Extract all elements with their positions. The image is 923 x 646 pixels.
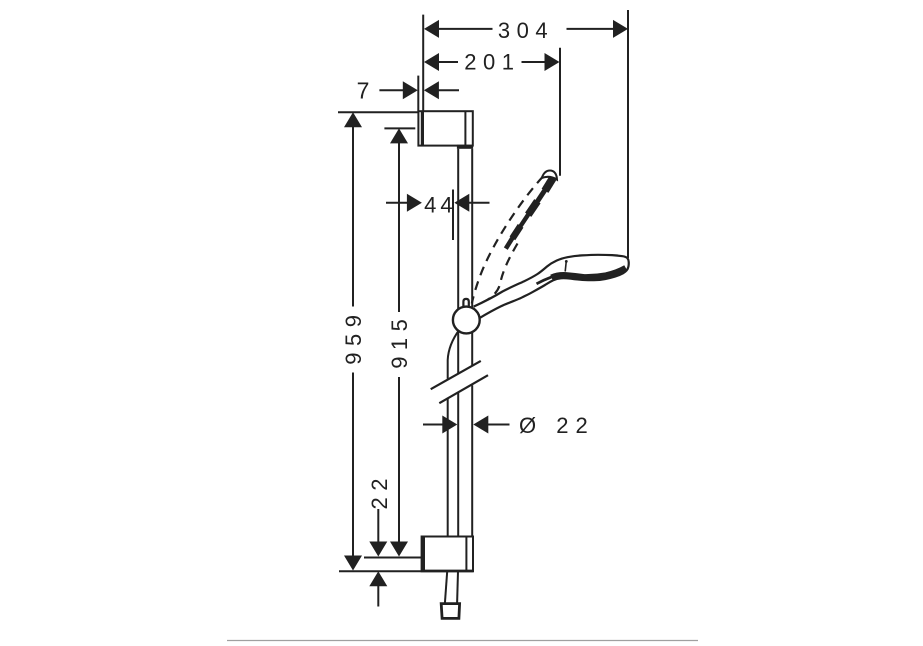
dim 7 bbox=[379, 89, 403, 91]
dim 44 bbox=[386, 202, 408, 204]
bottom wall bracket bbox=[422, 537, 473, 572]
extension line 304 (x=628) bbox=[627, 10, 629, 258]
dim 22 (vertical) bbox=[377, 509, 379, 544]
dim 201 bbox=[438, 61, 458, 63]
extension line bracket face (x=418.3) bbox=[417, 76, 419, 111]
dashed head tip cap bbox=[542, 170, 557, 179]
svg-text:304: 304 bbox=[498, 18, 554, 43]
extension line 44 (x=453) bbox=[452, 190, 454, 241]
solid handshower outline bbox=[474, 255, 629, 319]
extension line 915 top (y=128.4) bbox=[384, 127, 415, 129]
dim 915 bbox=[390, 128, 408, 143]
top wall bracket bbox=[418, 111, 472, 145]
svg-text:7: 7 bbox=[357, 78, 370, 104]
slider body bbox=[453, 307, 480, 334]
hose below bottom bracket bbox=[445, 571, 447, 603]
head/handle seam bbox=[565, 262, 566, 272]
spray face band on solid head bbox=[552, 268, 626, 278]
extension line top of bracket (y=112.2) bbox=[338, 111, 418, 113]
rail (Ø22 bar) left edge bbox=[457, 149, 459, 374]
slider knob bbox=[463, 299, 468, 308]
svg-text:915: 915 bbox=[387, 313, 412, 369]
labels bbox=[341, 18, 595, 509]
svg-text:Ø 22: Ø 22 bbox=[519, 413, 595, 438]
hose connector at bottom bbox=[441, 604, 459, 619]
dashed handshower upper position: right edge bbox=[483, 244, 518, 303]
svg-text:22: 22 bbox=[367, 472, 392, 509]
svg-text:44: 44 bbox=[424, 193, 456, 218]
dashed head spray face (jagged) bbox=[506, 178, 553, 248]
extension line wall face (x=423.2) bbox=[422, 15, 424, 111]
hose from slider to bottom bracket bbox=[448, 330, 460, 379]
footer rule bbox=[227, 640, 698, 642]
rail right edge bbox=[471, 149, 473, 367]
extension line 201 (x=560) bbox=[559, 48, 561, 176]
break symbol (bar shortened) bbox=[431, 361, 481, 389]
dim Ø22 bbox=[423, 424, 444, 426]
svg-text:201: 201 bbox=[464, 49, 520, 74]
svg-text:959: 959 bbox=[341, 308, 366, 364]
extension line 915/22 bottom (y=557.5) bbox=[364, 557, 422, 559]
dim 959 bbox=[344, 112, 362, 127]
extension line 959 bottom (y=571.2) bbox=[339, 570, 422, 572]
dashed handshower upper position: left edge bbox=[472, 177, 543, 304]
dim 304 bbox=[438, 28, 493, 30]
